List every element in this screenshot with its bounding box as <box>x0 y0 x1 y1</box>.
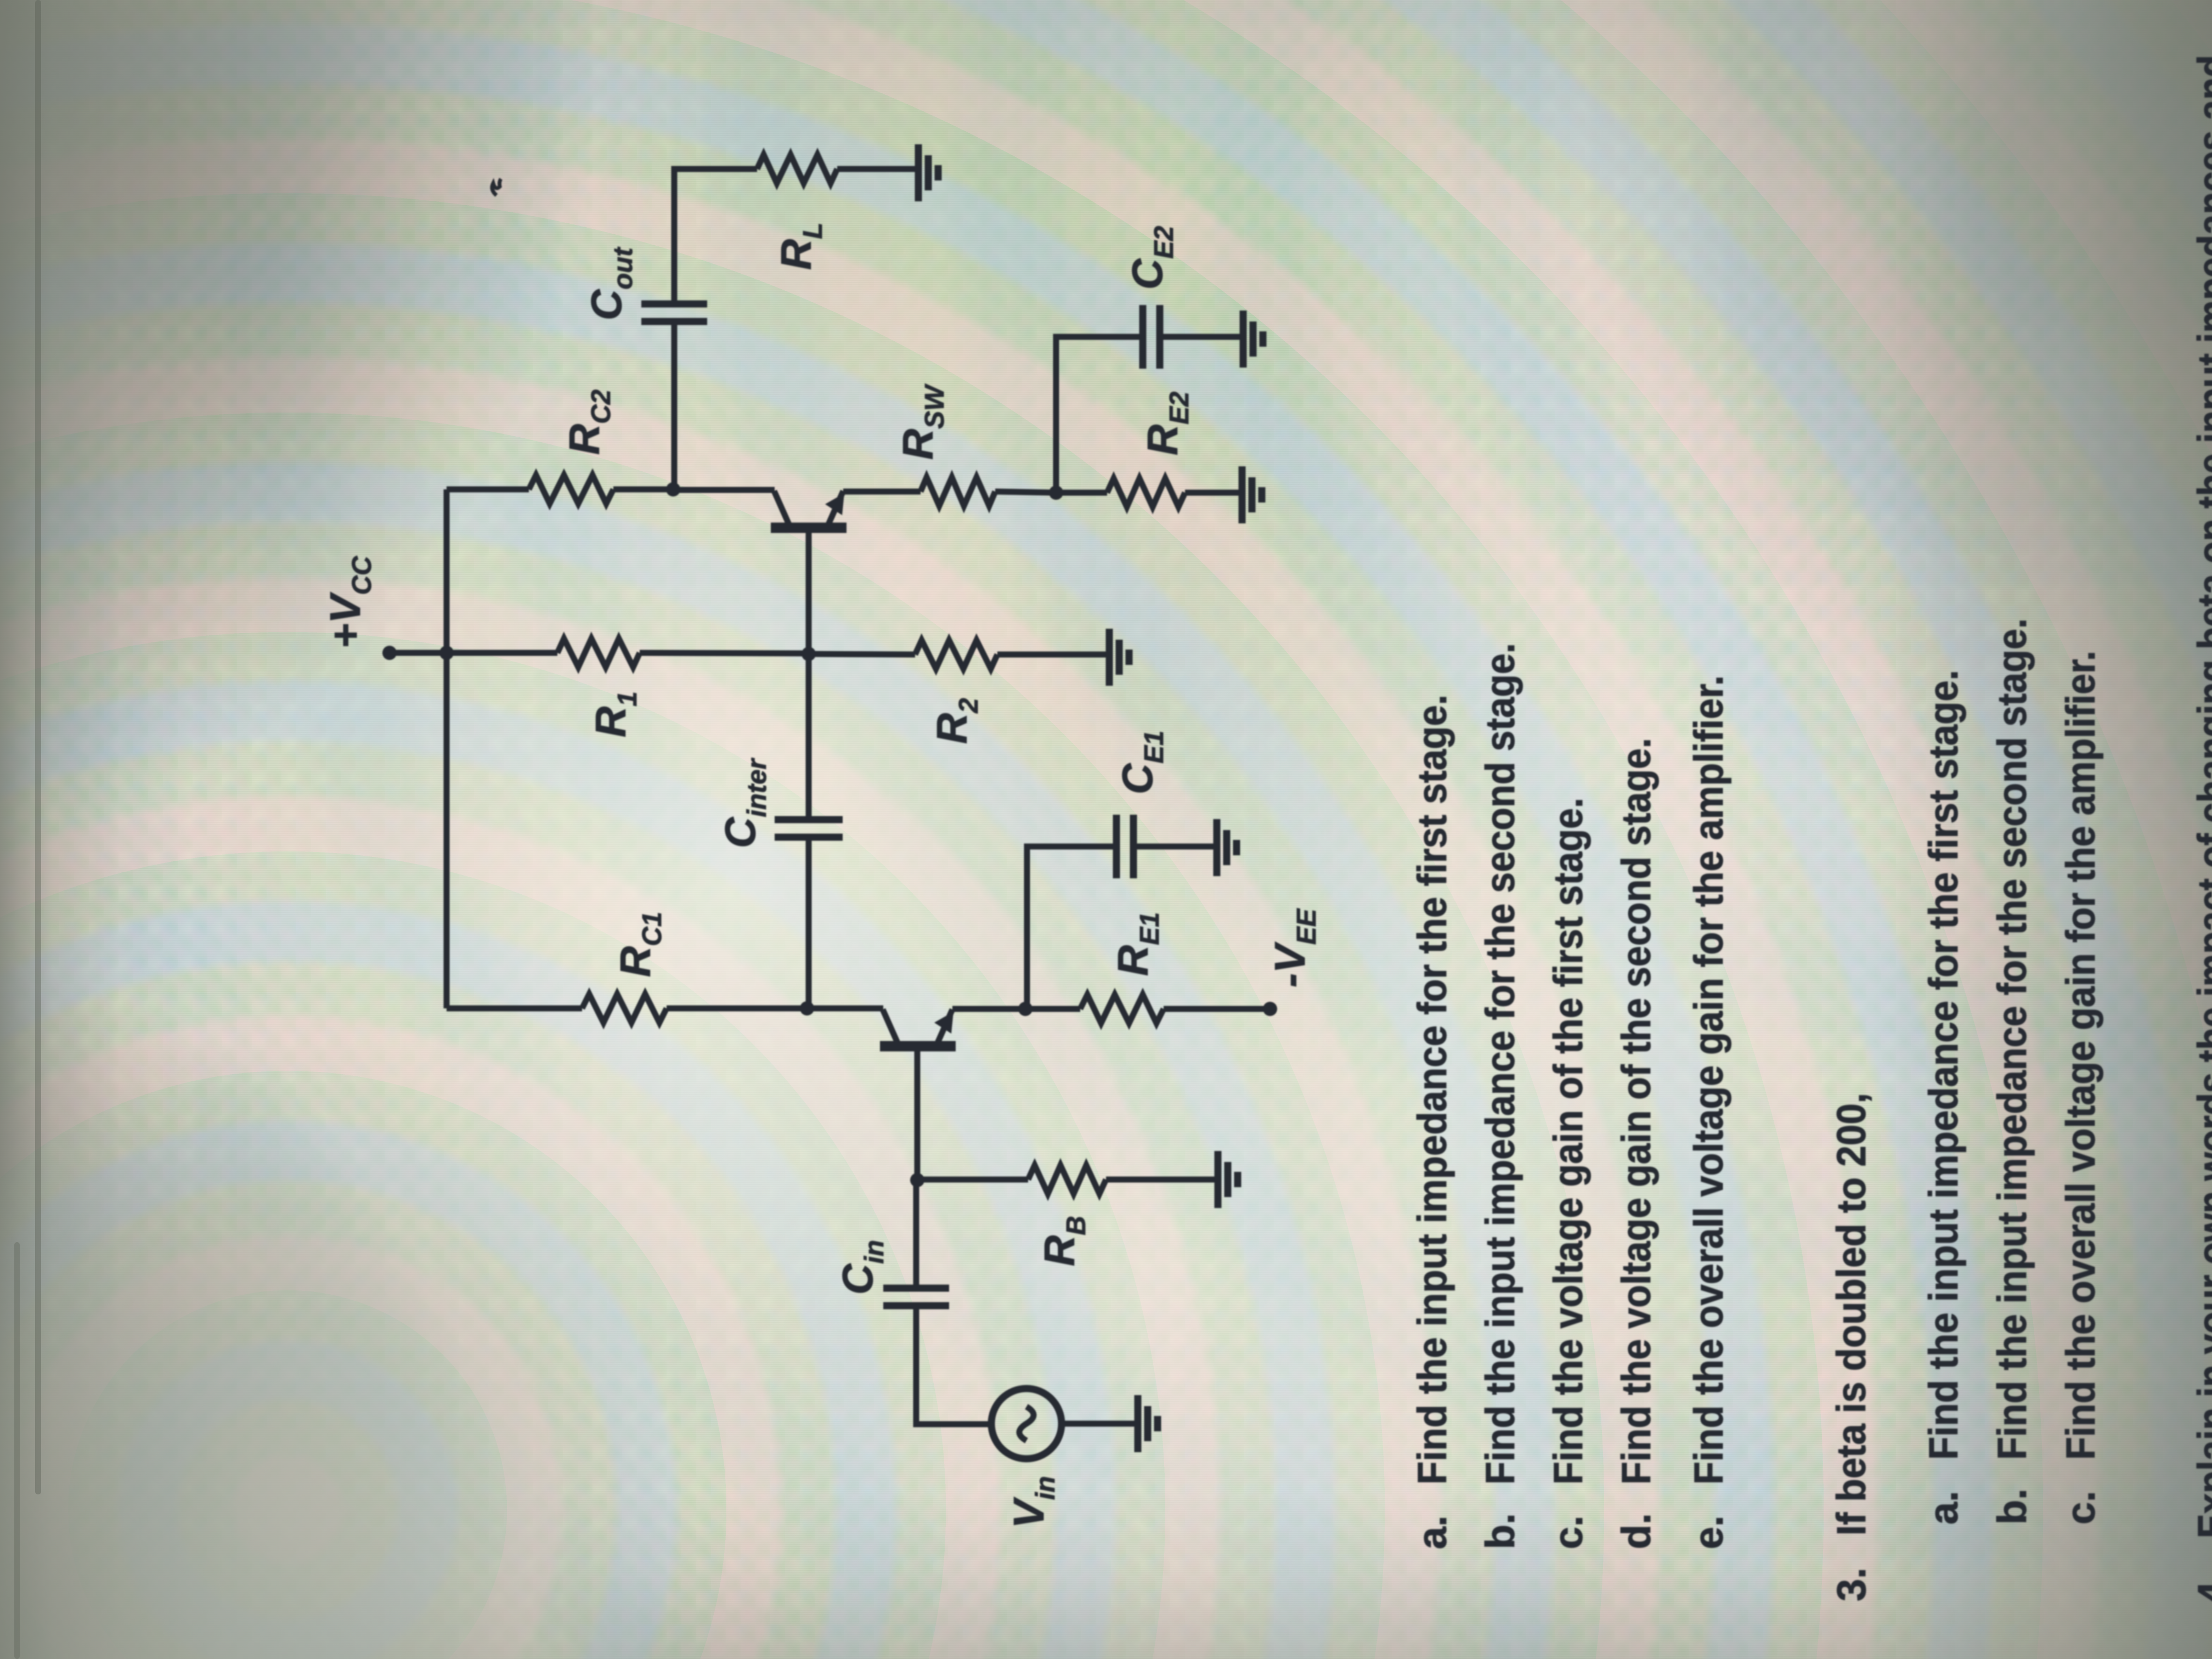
svg-text:b.Find the input impedance for: b.Find the input impedance for the secon… <box>1989 618 2035 1525</box>
wire Q1 emitter drop <box>952 1006 1025 1012</box>
node Q2 collector <box>666 482 680 496</box>
svg-text:c.Find the voltage gain of the: c.Find the voltage gain of the first sta… <box>1545 798 1591 1549</box>
wire Q2 base <box>806 528 812 654</box>
label CE2 <box>1123 226 1179 290</box>
resistor RE1 <box>1025 995 1164 1023</box>
wire Cinter to base node Q2 <box>806 654 812 820</box>
node Q1 emitter <box>1018 1002 1032 1016</box>
wire collector node to Cinter <box>806 837 812 1008</box>
label R2 <box>928 698 984 744</box>
svg-text:4.Explain in your own words th: 4.Explain in your own words the impact o… <box>2190 55 2212 1604</box>
pen scribble <box>492 179 501 195</box>
capacitor CE2 <box>1143 305 1160 369</box>
svg-text:a.Find the input impedance for: a.Find the input impedance for the first… <box>1409 695 1455 1549</box>
svg-text:RC2: RC2 <box>560 390 616 455</box>
svg-text:R2: R2 <box>928 698 984 744</box>
resistor R2 <box>915 640 997 669</box>
svg-text:d.Find the voltage gain of the: d.Find the voltage gain of the second st… <box>1613 738 1659 1549</box>
svg-text:Cin: Cin <box>833 1240 889 1295</box>
label RL <box>772 223 828 270</box>
wire RSW to emitter node <box>995 492 1056 493</box>
capacitor Cin <box>883 1288 949 1306</box>
label RSW <box>894 383 950 460</box>
wire Vin to ground <box>1062 1421 1137 1427</box>
label RE1 <box>1109 912 1165 976</box>
ground CE1 <box>1217 819 1237 876</box>
resistor RC2 <box>529 475 613 504</box>
svg-text:RC1: RC1 <box>611 912 667 977</box>
wire Q2 collector lead <box>673 487 775 493</box>
svg-text:3.If beta is doubled to 200,: 3.If beta is doubled to 200, <box>1829 1093 1874 1601</box>
svg-text:RSW: RSW <box>894 383 950 460</box>
svg-text:+VCC: +VCC <box>321 556 377 648</box>
label RC2 <box>560 390 616 455</box>
svg-text:b.Find the input impedance for: b.Find the input impedance for the secon… <box>1477 643 1523 1549</box>
wire CE1 branch <box>1027 847 1116 1009</box>
transistor Q2 <box>771 491 847 528</box>
label RB <box>1035 1216 1091 1266</box>
label Cin <box>833 1240 889 1295</box>
transistor Q1 <box>880 1009 956 1046</box>
wire RB drop <box>917 1177 1028 1183</box>
wire RL to ground <box>837 166 917 172</box>
node Q1 collector <box>800 1001 814 1015</box>
capacitor CE1 <box>1116 815 1133 878</box>
label Cout <box>582 247 638 320</box>
resistor RB <box>1028 1165 1106 1194</box>
ground RL <box>918 144 938 201</box>
wire RB to ground <box>1106 1177 1217 1183</box>
node rail-junction <box>439 646 454 660</box>
svg-text:CE2: CE2 <box>1123 226 1179 290</box>
wire Q1 collector lead <box>807 1006 883 1012</box>
resistor RSW <box>921 477 995 506</box>
wire base node to Cin <box>913 1180 919 1288</box>
capacitor Cout <box>641 304 707 321</box>
wire R1 to node <box>640 653 809 653</box>
label R1 <box>586 691 642 737</box>
capacitor Cinter <box>775 820 843 837</box>
ground CE2 <box>1243 311 1263 368</box>
label RC1 <box>611 912 667 977</box>
label +Vcc <box>321 556 377 648</box>
source Vin <box>991 1389 1062 1459</box>
wire collector node to Cout <box>672 321 678 489</box>
svg-text:RB: RB <box>1035 1216 1091 1266</box>
node Q1 base <box>910 1173 924 1187</box>
svg-text:Vin: Vin <box>1005 1476 1060 1528</box>
svg-text:e.Find the overall voltage gai: e.Find the overall voltage gain for the … <box>1686 675 1731 1549</box>
resistor RC1 <box>582 994 667 1023</box>
label CE1 <box>1113 731 1169 794</box>
wire rail to R1 <box>447 650 557 656</box>
wire RC1 to collector node <box>667 1006 807 1012</box>
label RE2 <box>1138 392 1194 455</box>
resistor RE2 <box>1056 478 1185 507</box>
wire Q2 emitter drop <box>843 489 921 495</box>
resistor RL <box>757 155 837 183</box>
-VEE supply terminal <box>1263 1002 1277 1016</box>
svg-text:a.Find the input impedance for: a.Find the input impedance for the first… <box>1921 670 1966 1525</box>
wire CE2 to ground <box>1160 334 1242 340</box>
wire Q1 base <box>915 1046 921 1180</box>
+Vcc supply terminal <box>382 646 447 660</box>
svg-text:R1: R1 <box>586 691 642 737</box>
svg-text:Cinter: Cinter <box>716 758 772 848</box>
svg-text:CE1: CE1 <box>1113 731 1169 794</box>
wire RE2 to ground <box>1185 490 1241 496</box>
svg-text:RL: RL <box>772 223 828 270</box>
svg-text:-VEE: -VEE <box>1266 908 1322 988</box>
wire Cin to corner and down <box>916 1306 991 1424</box>
wire Cout to RL corner <box>674 169 757 304</box>
wire R2 to ground <box>997 652 1108 658</box>
ground RE2 <box>1242 466 1262 523</box>
node Q2 emitter <box>1049 486 1063 500</box>
ground Vin <box>1138 1395 1158 1452</box>
svg-text:c.Find the overall voltage gai: c.Find the overall voltage gain for the … <box>2058 651 2103 1525</box>
wire CE1 to ground <box>1133 844 1216 850</box>
wire RE1 to VEE <box>1164 1006 1270 1012</box>
svg-text:RE2: RE2 <box>1138 392 1194 455</box>
svg-text:Cout: Cout <box>582 247 638 320</box>
label Cinter <box>716 758 772 848</box>
label Vin <box>1005 1476 1060 1528</box>
wire rail right drop <box>447 487 529 493</box>
ground RB <box>1218 1151 1238 1208</box>
wire node to R2 <box>809 654 915 654</box>
wire CE2 branch <box>1056 337 1143 493</box>
label -VEE <box>1266 908 1322 988</box>
wire Vcc top rail <box>444 489 450 1008</box>
ground R2 <box>1109 629 1129 686</box>
resistor R1 <box>557 639 640 667</box>
wire rail left drop <box>447 1006 582 1012</box>
node Q2 base <box>802 647 816 661</box>
svg-text:RE1: RE1 <box>1109 912 1165 976</box>
wire RC2 to collector node <box>613 487 673 493</box>
